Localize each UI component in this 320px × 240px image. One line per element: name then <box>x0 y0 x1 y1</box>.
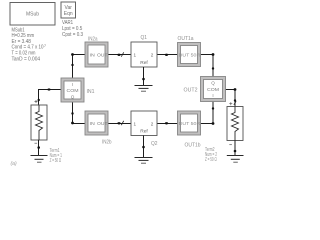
svg-text:Q2: Q2 <box>151 141 158 147</box>
load block OUT1b <box>178 111 201 135</box>
junction dot <box>212 53 215 56</box>
plus sign <box>35 100 38 103</box>
svg-text:Z = 50 Ω: Z = 50 Ω <box>205 157 217 163</box>
svg-text:Var: Var <box>64 5 72 11</box>
wire OUT2 COM to Term2 <box>226 89 236 107</box>
svg-text:Eqn: Eqn <box>64 11 73 17</box>
terminal Term2 box <box>227 102 243 145</box>
svg-text:MSub: MSub <box>26 12 39 18</box>
junction dot <box>142 78 145 81</box>
junction dot <box>117 54 120 56</box>
block IN2b <box>85 111 108 135</box>
svg-text:DUT 50R: DUT 50R <box>179 121 201 126</box>
wire Term2 to ground <box>234 141 236 156</box>
svg-text:IN2a: IN2a <box>88 36 98 42</box>
ground Term1 <box>31 156 48 163</box>
phase shifter Q1 <box>131 42 157 67</box>
junction dot <box>234 88 237 91</box>
svg-text:Ref: Ref <box>140 60 148 65</box>
svg-text:IN: IN <box>90 52 95 57</box>
resistor Term2 <box>232 107 239 141</box>
minus sign <box>229 144 232 146</box>
junction dot <box>234 99 236 101</box>
junction dot <box>71 64 73 66</box>
VAR1 parameter text <box>62 20 83 38</box>
svg-text:Q1: Q1 <box>141 35 148 41</box>
wire Term1 to ground <box>38 140 40 156</box>
junction dot <box>37 146 40 149</box>
svg-text:IN1: IN1 <box>87 89 95 95</box>
wire Q1 pin2 to OUT1a <box>157 54 178 56</box>
junction dot <box>38 99 40 101</box>
wire Q1 Ref to ground <box>143 67 145 86</box>
junction dot <box>117 122 120 124</box>
substrate MSub box <box>10 3 55 26</box>
svg-text:DUT 50R: DUT 50R <box>179 52 201 57</box>
svg-text:Ref: Ref <box>140 129 148 134</box>
junction dot <box>142 146 145 149</box>
wire OUT1b to OUT2 I <box>201 102 214 125</box>
junction dot <box>165 122 168 124</box>
svg-text:2: 2 <box>151 121 154 126</box>
wire IN1 I to IN2a IN <box>73 54 86 78</box>
hybrid OUT2 <box>201 77 226 102</box>
svg-text:OUT2: OUT2 <box>184 88 198 94</box>
wire tick <box>121 52 123 56</box>
svg-text:COM: COM <box>207 87 219 92</box>
hybrid IN1 <box>61 78 84 102</box>
load block OUT1a <box>178 43 201 67</box>
svg-text:Q: Q <box>211 81 215 86</box>
svg-text:Z = 50 Ω: Z = 50 Ω <box>50 158 62 164</box>
junction dot <box>165 54 168 56</box>
junction dot <box>234 150 237 153</box>
svg-text:1: 1 <box>134 53 137 58</box>
ground Term2 <box>227 156 244 163</box>
wire IN2a OUT to Q1 pin1 <box>108 54 131 56</box>
wire Q2 Ref to ground <box>143 136 145 158</box>
svg-text:OUT1b: OUT1b <box>185 143 201 149</box>
svg-text:OUT: OUT <box>97 52 108 57</box>
junction dot <box>71 122 74 125</box>
svg-text:Cpst = 0.3: Cpst = 0.3 <box>62 32 83 38</box>
wire Q2 pin2 to OUT1b <box>157 123 178 125</box>
svg-text:I: I <box>212 93 213 98</box>
svg-text:7: 7 <box>44 44 46 48</box>
label Term1 <box>50 148 63 164</box>
block IN2a <box>85 42 108 67</box>
plus sign <box>229 102 232 105</box>
svg-text:(a): (a) <box>11 161 17 167</box>
junction dot <box>212 67 214 69</box>
wire tick <box>234 101 236 104</box>
svg-text:OUT: OUT <box>97 121 108 126</box>
MSub parameter text <box>12 27 47 62</box>
svg-text:I: I <box>72 82 73 87</box>
label Term2 <box>205 147 217 163</box>
junction dot <box>212 122 215 125</box>
svg-text:2: 2 <box>151 53 154 58</box>
phase shifter Q2 <box>131 111 157 136</box>
wire OUT1a to OUT2 Q <box>201 55 214 77</box>
junction dot <box>212 107 214 109</box>
junction dot <box>71 53 74 56</box>
ground Q1 <box>135 86 153 92</box>
junction dot <box>48 88 51 90</box>
terminal Term1 box <box>31 100 47 143</box>
resistor Term1 <box>36 105 43 140</box>
svg-text:1: 1 <box>134 121 137 126</box>
ground Q2 <box>135 158 153 164</box>
svg-text:IN: IN <box>90 121 95 126</box>
minus sign <box>35 142 38 144</box>
wire tick <box>121 121 123 125</box>
svg-text:COM: COM <box>67 88 79 93</box>
svg-text:OUT1a: OUT1a <box>178 36 194 42</box>
wire IN2b OUT to Q2 pin1 <box>108 123 131 125</box>
junction dot <box>71 112 73 114</box>
wire Term1 to IN1 COM <box>39 89 62 105</box>
svg-text:Q: Q <box>71 95 75 100</box>
svg-text:IN2b: IN2b <box>102 139 112 145</box>
svg-text:TanD = 0.004: TanD = 0.004 <box>12 56 41 62</box>
variable equation box VAR1 <box>61 2 76 18</box>
wire IN1 Q to IN2b IN <box>73 102 86 124</box>
